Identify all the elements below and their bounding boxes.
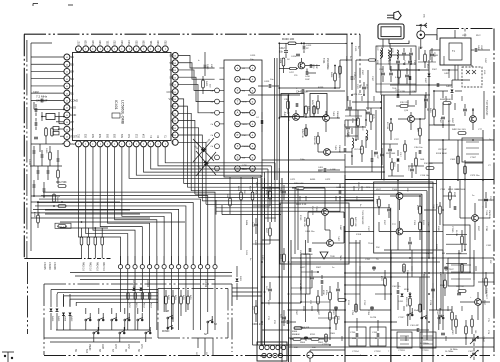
- switch S1A: [407, 308, 419, 326]
- resistor R116: [391, 158, 395, 176]
- svg-text:R432: R432: [254, 240, 256, 246]
- wire horizontal r5: [291, 257, 494, 259]
- wire extra h8: [262, 239, 280, 241]
- svg-text:R908: R908: [440, 285, 446, 287]
- svg-text:R11?: R11?: [414, 139, 420, 141]
- svg-text:C10?: C10?: [379, 69, 384, 71]
- svg-text:C12?: C12?: [367, 226, 369, 232]
- wire switch risers: [408, 272, 441, 310]
- svg-text:R40? 3.3K: R40? 3.3K: [354, 217, 356, 227]
- resistor R406: [51, 128, 54, 136]
- wire descender x436: [436, 180, 438, 310]
- resistor extra2: [369, 59, 376, 61]
- label LW MW: [406, 270, 441, 277]
- svg-text:R?11: R?11: [347, 300, 349, 306]
- capacitor Cf5: [405, 68, 409, 84]
- wire horizontal r7: [262, 276, 430, 278]
- svg-text:C406 10n: C406 10n: [305, 231, 315, 233]
- svg-text:CH2: CH2: [127, 344, 129, 349]
- svg-text:K1: K1: [171, 111, 175, 115]
- capacitor colD2: [484, 192, 488, 208]
- wire bus lower extra: [216, 200, 390, 215]
- ceramic filter box: [378, 24, 409, 44]
- label CN403: [132, 280, 206, 288]
- resistor colC2: [361, 140, 364, 162]
- svg-text:R203 102K: R203 102K: [405, 297, 407, 308]
- svg-text:R1?5: R1?5: [372, 114, 374, 119]
- svg-text:R901: R901: [318, 342, 324, 344]
- svg-text:T?0B: T?0B: [485, 226, 487, 232]
- border frame bottom-left notch: [24, 258, 112, 260]
- transistor T105: [392, 188, 408, 199]
- capacitor box C153: [370, 320, 386, 346]
- resistor R304: [292, 327, 302, 336]
- wire horizontal r6: [291, 261, 440, 263]
- wire mid h: [278, 87, 340, 89]
- svg-text:S1A: S1A: [414, 309, 418, 312]
- junction fill: [261, 293, 430, 323]
- capacitor Cf2: [409, 48, 413, 62]
- svg-text:C10?: C10?: [439, 118, 441, 124]
- svg-text:VDD: VDD: [169, 97, 175, 101]
- svg-text:D10?: D10?: [424, 78, 426, 84]
- svg-text:D414: D414: [64, 316, 66, 322]
- IC401 bottom pin row: [76, 141, 169, 147]
- svg-text:CT105: CT105: [451, 226, 453, 233]
- capacitor C303: [321, 280, 323, 284]
- svg-text:C125 1n: C125 1n: [353, 72, 355, 80]
- wire horizontal r12: [345, 321, 397, 323]
- wire extra v2: [355, 60, 357, 140]
- wire keypad bottom labels: [195, 352, 207, 355]
- wire midbox: [305, 240, 307, 322]
- svg-text:VDD: VDD: [71, 106, 77, 110]
- wire horizontal r7b: [345, 272, 494, 274]
- junction dots crystal: [41, 108, 65, 117]
- capacitor C447: [303, 248, 314, 256]
- wire vertical bus G: [390, 250, 392, 362]
- IC401 top pin row: [76, 40, 169, 52]
- inner box top: [31, 42, 52, 44]
- svg-text:C410: C410: [45, 148, 47, 154]
- wire upper t406: [292, 184, 340, 212]
- svg-text:S23: S23: [120, 40, 124, 45]
- svg-text:C471: C471: [290, 179, 296, 181]
- svg-text:TEST: TEST: [71, 135, 78, 139]
- box T406 cluster: [280, 203, 349, 264]
- svg-text:C16?: C16?: [468, 351, 474, 353]
- label tr fill: [354, 35, 481, 161]
- wire horizontal r19: [424, 209, 436, 211]
- IC ST8 pads row2: [262, 353, 283, 357]
- svg-text:I: I: [150, 47, 151, 51]
- svg-text:R44?: R44?: [279, 254, 281, 260]
- svg-text:C125: C125: [354, 46, 356, 52]
- svg-text:R439: R439: [318, 87, 324, 89]
- svg-text:T401: T401: [322, 58, 325, 64]
- dashed box CT301: [448, 258, 474, 286]
- transistor T904: [475, 288, 487, 305]
- svg-text:S30: S30: [156, 40, 160, 45]
- connector strip circles: [210, 65, 255, 171]
- svg-text:T105: T105: [392, 189, 398, 191]
- svg-text:S1: S1: [71, 91, 75, 95]
- svg-text:CT151: CT151: [422, 350, 429, 352]
- wire horizontal r23: [429, 162, 443, 164]
- misc labels: [245, 46, 492, 346]
- resistor colA1: [269, 186, 272, 206]
- svg-text:15U: 15U: [423, 14, 425, 18]
- svg-text:1M: 1M: [426, 108, 428, 111]
- svg-text:R90?: R90?: [451, 330, 453, 335]
- wire tr fill2: [345, 107, 404, 176]
- capacitor sprinkle: [304, 267, 448, 339]
- svg-text:R439: R439: [330, 72, 332, 78]
- svg-text:16.7M: 16.7M: [370, 317, 376, 319]
- wire vertical bus N: [295, 188, 298, 240]
- capacitor colC1: [348, 100, 352, 116]
- wire extra v3: [339, 60, 341, 88]
- svg-text:R412 56K: R412 56K: [56, 181, 67, 184]
- label C410: [45, 148, 47, 154]
- label strip bottom: [242, 165, 248, 171]
- wire extra v6: [409, 70, 411, 95]
- svg-text:I: I: [121, 142, 122, 146]
- svg-text:R904: R904: [300, 342, 306, 344]
- capacitor colC3: [388, 144, 392, 158]
- coil L108: [376, 50, 381, 64]
- svg-text:C161 42P: C161 42P: [410, 325, 420, 327]
- capacitor colB3: [336, 282, 340, 300]
- wire center band: [345, 70, 405, 175]
- svg-text:S4: S4: [71, 70, 75, 74]
- svg-text:S32: S32: [163, 40, 167, 45]
- svg-text:10K: 10K: [296, 334, 300, 336]
- label T401: [322, 58, 329, 70]
- wire vdd: [34, 102, 64, 109]
- wire antenna: [383, 27, 421, 48]
- dashed box CT101: [462, 138, 483, 162]
- wire rf block: [376, 64, 416, 92]
- svg-text:L10?: L10?: [376, 189, 382, 191]
- svg-text:R435: R435: [310, 179, 316, 181]
- wire extra h4: [345, 126, 366, 128]
- svg-text:I: I: [143, 142, 144, 146]
- svg-text:100P: 100P: [305, 79, 310, 81]
- transistor T405: [324, 145, 340, 155]
- svg-text:R405 3.3K: R405 3.3K: [296, 204, 307, 206]
- border frame left: [24, 34, 27, 258]
- svg-text:S08: S08: [115, 133, 117, 138]
- svg-text:CT153: CT153: [398, 350, 405, 352]
- transistor T106: [392, 224, 403, 235]
- capacitor C302: [392, 286, 402, 294]
- svg-text:R?01: R?01: [310, 334, 316, 336]
- transistor T401 2SC2999E: [298, 62, 305, 69]
- resistor R353: [313, 106, 317, 114]
- transistor T102 2SK212F: [470, 100, 487, 122]
- svg-text:XT: XT: [71, 127, 75, 131]
- svg-text:25K: 25K: [376, 247, 380, 249]
- wire rail y110: [345, 95, 430, 110]
- wire extra v9: [448, 103, 450, 140]
- svg-text:2SC2320: 2SC2320: [311, 206, 313, 216]
- wire top right: [360, 29, 437, 76]
- svg-text:C151: C151: [365, 259, 371, 261]
- resistor R102: [424, 50, 428, 69]
- capacitor extra1: [366, 112, 378, 154]
- wire strip drops: [258, 163, 276, 345]
- capacitor C413: [303, 43, 312, 53]
- resistor R123: [419, 220, 424, 230]
- svg-text:C41?: C41?: [251, 222, 253, 228]
- svg-text:C403: C403: [28, 159, 31, 165]
- svg-text:16.7MHz: 16.7MHz: [420, 343, 429, 345]
- wire R430: [279, 42, 347, 95]
- diode D410: [196, 152, 216, 176]
- capacitor C409: [35, 118, 37, 130]
- svg-text:S09: S09: [122, 133, 124, 138]
- svg-text:K3: K3: [171, 126, 175, 130]
- label D409: [193, 138, 211, 171]
- wire extra v8: [457, 140, 459, 180]
- svg-text:AM: AM: [242, 78, 245, 81]
- svg-text:C110 10n: C110 10n: [420, 175, 430, 177]
- resistor R421: [55, 223, 71, 228]
- svg-text:C413: C413: [306, 45, 312, 47]
- svg-text:C130 1n: C130 1n: [357, 182, 359, 191]
- svg-text:GBS2: GBS2: [242, 124, 248, 126]
- svg-text:IC401: IC401: [114, 100, 118, 110]
- resistor R413-R416 row: [80, 228, 104, 271]
- svg-text:S21: S21: [105, 40, 109, 45]
- wire extra v1: [351, 43, 353, 70]
- wire extra bottom8: [473, 250, 475, 280]
- wire vertical bus B: [275, 58, 278, 180]
- trimmer CT151 box: [420, 332, 436, 352]
- wire colB v1: [301, 254, 306, 302]
- svg-text:25C: 25C: [489, 260, 491, 264]
- capacitor C445: [296, 86, 308, 94]
- svg-text:R430 100: R430 100: [282, 37, 295, 41]
- svg-text:R102: R102: [426, 64, 428, 69]
- transistor T407: [327, 236, 339, 246]
- capacitor C482: [475, 45, 482, 52]
- testpoint TP40: [320, 252, 336, 259]
- svg-text:R354 10K: R354 10K: [301, 129, 303, 139]
- wire horizontal r22: [345, 284, 385, 286]
- svg-text:S36: S36: [169, 75, 174, 79]
- resistor R907: [465, 326, 468, 334]
- svg-text:R116: R116: [393, 162, 395, 166]
- svg-text:CH3: CH3: [114, 344, 116, 349]
- label br corner: [450, 336, 485, 351]
- svg-text:R425: R425: [205, 81, 207, 87]
- svg-text:C750: C750: [351, 310, 353, 316]
- svg-text:R42?: R42?: [265, 228, 267, 234]
- coil L110: [397, 50, 398, 58]
- capacitor colC5: [424, 92, 428, 108]
- svg-text:S34: S34: [169, 61, 174, 65]
- wire left col bottom: [31, 195, 60, 197]
- svg-text:C10?: C10?: [462, 35, 467, 37]
- resistor R112: [396, 102, 415, 107]
- coil can box A: [281, 94, 304, 117]
- svg-text:D151: D151: [398, 301, 404, 303]
- capacitor C101: [396, 55, 400, 70]
- resistor colA2: [269, 222, 272, 244]
- svg-text:R20?: R20?: [453, 192, 455, 198]
- wire vertical bus D: [289, 95, 292, 362]
- wire vertical bus A: [262, 178, 265, 345]
- coil L109: [388, 50, 391, 58]
- capacitor C117: [397, 152, 401, 162]
- svg-text:R20?: R20?: [477, 226, 479, 232]
- wire vertical bus I: [442, 140, 444, 225]
- antenna symbol 15U: [416, 14, 427, 28]
- svg-text:S18: S18: [84, 40, 88, 45]
- svg-text:100u: 100u: [300, 159, 306, 161]
- resistor R430: [282, 37, 296, 45]
- svg-text:S10: S10: [129, 133, 131, 138]
- svg-text:S03: S03: [93, 133, 95, 138]
- svg-text:L108: L108: [376, 60, 378, 64]
- resistor extra3: [339, 66, 342, 74]
- capacitor C104: [430, 48, 435, 62]
- wire bus IC bottom lower nest: [31, 147, 215, 265]
- switch S2 S3: [204, 316, 218, 336]
- coil can box B: [310, 94, 327, 117]
- svg-text:R418: R418: [33, 212, 35, 218]
- svg-text:C153: C153: [367, 310, 369, 316]
- svg-text:C1?: C1?: [343, 124, 345, 127]
- wire extra bottom3: [310, 349, 345, 351]
- svg-text:TA?S: TA?S: [339, 255, 342, 261]
- svg-text:C161: C161: [486, 245, 492, 247]
- svg-text:SW: SW: [458, 253, 461, 255]
- connector CN403 pins: [118, 256, 217, 284]
- wire colA h1: [253, 206, 277, 244]
- svg-text:D415: D415: [57, 316, 59, 322]
- diode D408: [193, 138, 214, 162]
- wire tr fill1: [418, 56, 458, 78]
- svg-text:R10?: R10?: [361, 70, 363, 76]
- svg-text:KO: KO: [170, 104, 174, 108]
- trimmer CT105: [443, 225, 470, 273]
- resistor colB2: [317, 290, 320, 312]
- svg-text:FM: FM: [242, 90, 245, 92]
- svg-text:R304: R304: [435, 244, 437, 250]
- keypad subbox UP/DOWN: [158, 289, 228, 339]
- resistor R901: [308, 334, 324, 349]
- svg-text:R43?: R43?: [265, 190, 267, 196]
- wire gnd run: [31, 140, 63, 152]
- capacitor C108: [397, 91, 405, 98]
- wire right v fill: [412, 180, 460, 306]
- switch labels: [88, 344, 142, 351]
- svg-text:C410: C410: [206, 64, 208, 70]
- label sprinkle2: [245, 56, 492, 357]
- wire horizontal r24: [345, 231, 374, 233]
- wire below coils: [381, 48, 420, 95]
- svg-text:16.7MHz: 16.7MHz: [445, 351, 453, 353]
- crystal X401: [42, 112, 59, 121]
- capacitor C121: [344, 148, 346, 152]
- svg-text:16.7M: 16.7M: [455, 230, 457, 236]
- resistor R408: [57, 166, 60, 184]
- wire T401 area: [279, 42, 320, 73]
- wire vertical bus O: [252, 230, 254, 345]
- wire extra h9: [349, 242, 360, 244]
- capacitor colB1: [310, 270, 314, 288]
- capacitor extra3: [441, 293, 461, 335]
- svg-text:C405: C405: [345, 56, 347, 62]
- svg-text:D413: D413: [70, 316, 72, 322]
- svg-text:25K212F: 25K212F: [488, 210, 490, 220]
- capacitor C412: [279, 43, 288, 58]
- svg-text:C472: C472: [325, 179, 331, 181]
- wire bus above keypad: [70, 273, 232, 280]
- diode D410b: [196, 151, 216, 175]
- wire descender x390: [390, 208, 392, 362]
- junction colB: [300, 271, 337, 311]
- svg-text:S14: S14: [144, 133, 146, 138]
- svg-text:R60B 1.5K: R60B 1.5K: [303, 217, 305, 227]
- svg-text:R90?: R90?: [483, 300, 485, 306]
- svg-text:C415: C415: [250, 55, 256, 57]
- svg-text:C445 10m: C445 10m: [296, 90, 308, 94]
- svg-text:100: 100: [474, 330, 476, 333]
- svg-text:C?52: C?52: [363, 300, 365, 306]
- resistor R368: [313, 136, 319, 146]
- svg-text:16.7MHz: 16.7MHz: [450, 349, 458, 351]
- svg-text:R368 50K: R368 50K: [313, 136, 315, 146]
- transistor T402 2SC2668: [283, 112, 299, 122]
- svg-text:I: I: [93, 142, 94, 146]
- wire t201: [460, 203, 490, 252]
- svg-text:C42?: C42?: [261, 255, 263, 261]
- resistor R903 block: [380, 276, 386, 286]
- diode D481: [446, 80, 454, 100]
- svg-text:S10: S10: [85, 349, 87, 354]
- svg-text:I: I: [150, 142, 151, 146]
- svg-text:C750: C750: [350, 332, 356, 334]
- capacitor C404b: [37, 166, 49, 180]
- capacitor C483: [463, 104, 467, 116]
- svg-text:+: +: [296, 86, 298, 90]
- wire crystal to XT2: [59, 117, 64, 124]
- capacitor C124: [408, 237, 412, 250]
- label D151: [398, 301, 404, 303]
- svg-text:T105 25K212F: T105 25K212F: [361, 210, 363, 225]
- resistor R352: [305, 106, 309, 114]
- resistor R115: [370, 108, 374, 130]
- svg-text:I: I: [100, 47, 101, 51]
- border frame right: [493, 29, 495, 357]
- svg-text:C303: C303: [450, 159, 456, 161]
- svg-text:PW40: PW40: [88, 344, 90, 351]
- wire extra h5: [429, 124, 443, 126]
- svg-text:C13?: C13?: [365, 84, 367, 89]
- svg-text:I: I: [143, 47, 144, 51]
- svg-text:K2: K2: [171, 119, 175, 123]
- svg-text:R30?: R30?: [295, 310, 297, 316]
- wire extra v4: [367, 70, 369, 110]
- junction extra: [261, 42, 466, 339]
- junction mid: [37, 201, 96, 229]
- svg-text:R434: R434: [245, 220, 247, 226]
- dashed coil box L181: [462, 67, 485, 87]
